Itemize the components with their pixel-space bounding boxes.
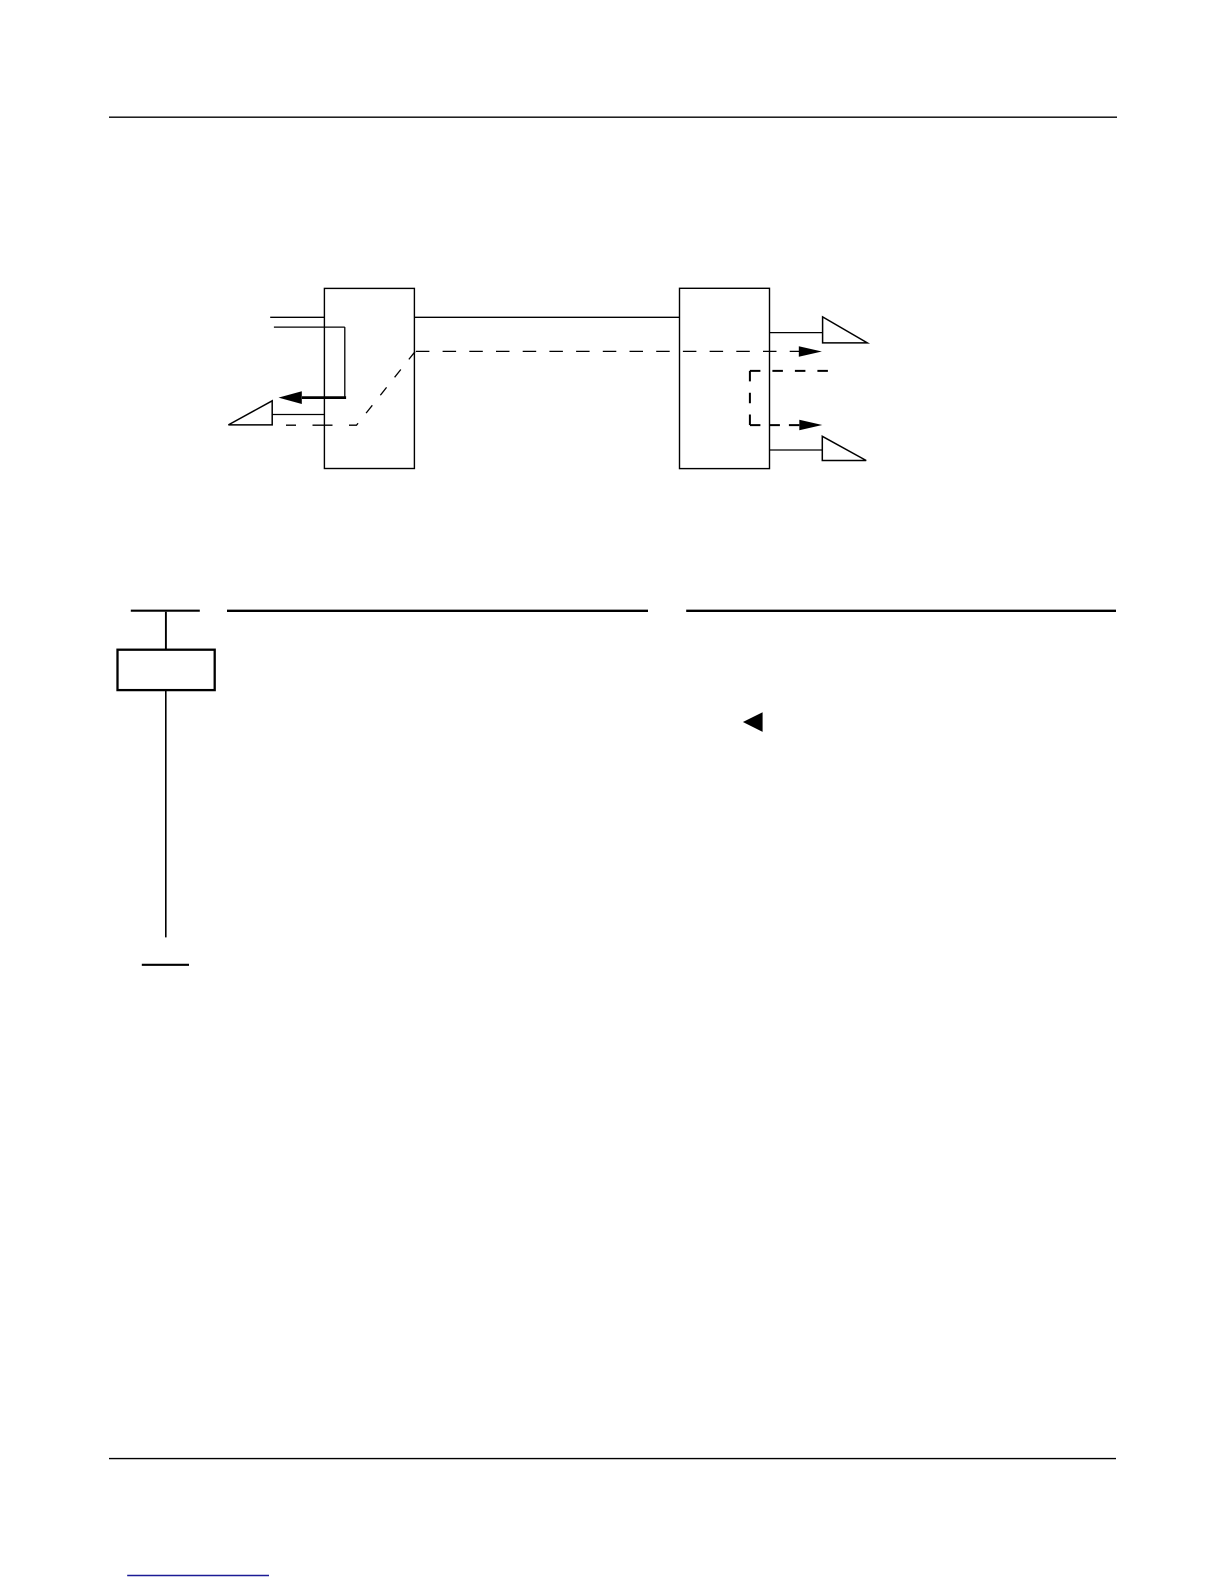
wire into bottom-right driver — [770, 449, 823, 451]
dashed hook vertical segment — [749, 371, 751, 425]
driver buffer triangle top right — [823, 317, 868, 343]
top header rule — [109, 116, 1117, 118]
wire receiver input line — [272, 414, 324, 416]
dashed hook bottom segment — [750, 424, 799, 426]
wire resistor down — [165, 690, 167, 937]
wire TXD stub into left box — [270, 316, 324, 318]
dashed hook top segment right box — [750, 370, 828, 372]
dashed hook arrowhead — [799, 420, 822, 431]
left column rule — [227, 610, 648, 612]
supply rail tick — [131, 610, 200, 612]
dashed path arrowhead right — [799, 346, 822, 357]
dashed RX path horizontal left — [286, 424, 349, 426]
receiver buffer triangle left — [228, 401, 272, 425]
bottom footer rule — [109, 1458, 1116, 1460]
right column rule — [686, 610, 1116, 612]
wire loopback hook vertical — [344, 327, 346, 398]
wire rail to resistor — [165, 612, 167, 650]
bold arrowhead pointing left — [279, 391, 302, 404]
bold loopback wire — [302, 396, 346, 399]
wire into top-right driver — [770, 332, 823, 334]
wire bus between boxes — [414, 316, 679, 318]
blue hyperlink underline — [127, 1575, 269, 1577]
left device box — [324, 288, 414, 468]
dashed RX path diagonal inside left box — [349, 351, 415, 425]
wire RXD stub entering left box — [274, 326, 345, 328]
right device box — [680, 288, 770, 468]
left-pointing bullet glyph — [743, 712, 763, 732]
dashed path between boxes — [416, 350, 799, 352]
pull-up resistor R1 box — [118, 650, 215, 690]
driver buffer triangle bottom right — [822, 436, 866, 460]
bottom terminal tick — [142, 964, 189, 966]
